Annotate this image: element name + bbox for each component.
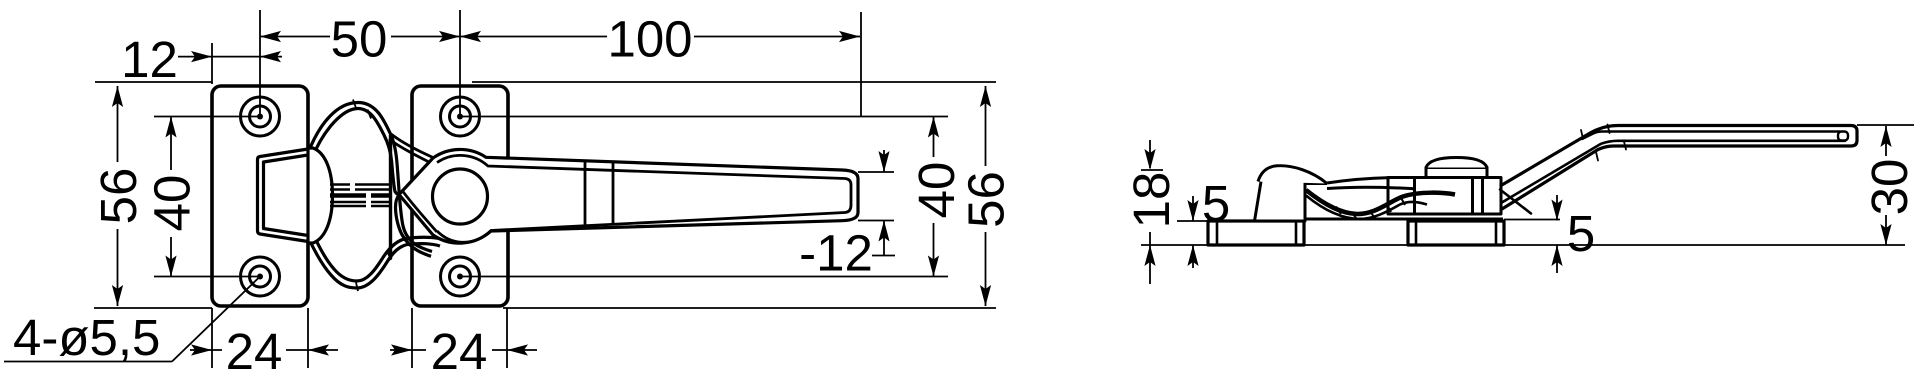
neck lower inner: [395, 195, 431, 257]
spring wire bundle line 3 thick: [330, 193, 366, 198]
arrow dim40R top: [928, 117, 939, 138]
arrow dim24L right: [308, 344, 329, 355]
arrow dim56R top: [980, 86, 991, 107]
keeper trapezoid inner: [264, 155, 309, 236]
lever grip seam line: [1582, 132, 1840, 140]
svg-text:18: 18: [1123, 172, 1180, 229]
extension line x861 vertical: [860, 12, 862, 117]
dim 56 right line: [985, 86, 987, 166]
arrow dim50 left: [260, 31, 281, 42]
svg-text:40: 40: [144, 175, 201, 232]
arrow dim24L left: [191, 344, 212, 355]
dim 5 left connector: [1177, 220, 1208, 222]
bend tick 3: [1596, 152, 1598, 161]
svg-text:56: 56: [958, 171, 1015, 228]
coil rung 2: [1352, 213, 1357, 220]
arrow dim100 left: [460, 31, 481, 42]
coil rung 3: [1370, 211, 1375, 219]
arrow dim5R bottom: [1551, 245, 1562, 266]
keeper cap: [308, 148, 333, 243]
svg-text:4-ø5,5: 4-ø5,5: [13, 309, 160, 366]
pivot block side view: [1388, 178, 1501, 215]
lever inner line: [1501, 141, 1845, 203]
side spring S main: [1306, 190, 1455, 214]
side wire band line 1: [1327, 178, 1390, 183]
svg-text:56: 56: [90, 168, 147, 225]
arch tick 2: [368, 110, 372, 119]
connecting bar side view: [1305, 218, 1503, 221]
arrow dim5L bottom: [1187, 245, 1198, 266]
block inner vertical 3: [1481, 178, 1484, 215]
boss under dome: [1426, 168, 1487, 178]
arrow dim18 top: [1144, 149, 1155, 170]
pivot inner arc bottom: [437, 213, 845, 243]
arrow dim50 right: [439, 31, 460, 42]
dip tick 2: [388, 252, 392, 260]
centerline hole row bottom right: [460, 276, 948, 278]
dim -12 connectors: [858, 171, 894, 173]
svg-text:30: 30: [1861, 159, 1918, 216]
dim -12 line vertical: [883, 150, 885, 172]
hole center dots: [257, 114, 263, 120]
svg-text:40: 40: [908, 162, 965, 219]
arrow dim12 right: [260, 51, 281, 62]
spring wire bundle line 1: [330, 183, 350, 186]
dim 12 line: [178, 56, 260, 58]
base plate right: [1408, 221, 1504, 245]
extension line x212 short: [211, 43, 213, 84]
arrow dim-12 top: [878, 151, 889, 172]
centerline hole row bottom left: [154, 276, 260, 278]
svg-text:100: 100: [607, 11, 692, 68]
dim 40 left line: [170, 117, 172, 171]
bend tick 2: [1608, 125, 1610, 134]
dim 50 line: [260, 36, 330, 38]
arrow dim18 bottom: [1144, 245, 1155, 266]
arch spring wire inner: [312, 109, 399, 195]
extension line top-left horizontal: [95, 81, 212, 83]
pivot inner arc top: [437, 155, 845, 178]
hole bottom-left inner: [250, 266, 271, 287]
block inner vertical 2: [1471, 178, 1474, 215]
centerline hole row top left: [154, 116, 260, 118]
bend tick 1: [1581, 130, 1583, 139]
arrow dim56L bottom: [112, 285, 123, 306]
dim 24 left line: [190, 349, 222, 351]
hole top-left outer: [241, 97, 280, 136]
arrow dim5L top: [1187, 200, 1198, 221]
arch tick 1: [353, 100, 356, 109]
base plate left: [1208, 221, 1304, 245]
arrow dim40R bottom: [928, 256, 939, 277]
keeper side body: [1255, 182, 1328, 222]
arrow dim5R top: [1551, 200, 1562, 221]
dim 5 right connector: [1504, 219, 1560, 221]
extension line bottom-left horizontal: [94, 307, 212, 309]
svg-text:5: 5: [1567, 205, 1595, 262]
dim 30 connector: [1857, 124, 1914, 126]
hole bottom-right outer: [441, 257, 480, 296]
leader 4-o5,5 underline: [4, 361, 172, 363]
arrow dim56R bottom: [980, 285, 991, 306]
coil rung 1: [1336, 207, 1341, 215]
spring wire bundle line 4: [330, 201, 366, 204]
dim 24 right line: [390, 349, 426, 351]
arrow dim12 left: [191, 51, 212, 62]
dim 24 right: extension lines: [411, 308, 413, 368]
hole top-left inner: [250, 106, 271, 127]
lever tip rolled end: [1838, 132, 1848, 141]
left mounting plate: [212, 86, 308, 306]
right mounting plate: [412, 86, 508, 306]
centerline x460 vertical: [459, 10, 461, 117]
arrow dim56L top: [112, 86, 123, 107]
handle tick 1: [584, 161, 587, 226]
handle tick 2: [612, 162, 615, 225]
hole bottom-right inner: [450, 266, 471, 287]
svg-text:-12: -12: [799, 225, 873, 282]
arrow dim30 bottom: [1880, 224, 1891, 245]
dim 5 right line: [1556, 195, 1558, 221]
leader 4-o5,5 diagonal: [172, 277, 260, 362]
lever angled outer top: [1501, 126, 1857, 210]
handle tip inner: [845, 179, 851, 213]
svg-text:24: 24: [226, 323, 283, 380]
centerline x260 vertical: [259, 10, 261, 117]
dim 100 line: [460, 36, 607, 38]
arch spring wire outer: [308, 103, 399, 195]
dip tick 1: [356, 283, 358, 292]
arrow dim-12 bottom: [878, 221, 889, 242]
text dim 56 right rotated: [958, 171, 1015, 228]
pivot notch inner line lower: [403, 191, 437, 232]
coil rung 5: [1400, 196, 1405, 205]
right view ground line: [1141, 244, 1905, 246]
dip spring wire inner: [313, 234, 443, 282]
side wire band line 2: [1327, 187, 1414, 189]
svg-text:24: 24: [431, 323, 488, 380]
arch branch to head upper a: [391, 134, 433, 158]
arrow dim40L top: [165, 117, 176, 138]
arrow dim40L bottom: [165, 256, 176, 277]
svg-text:12: 12: [121, 31, 178, 88]
spring wire bundle line 2: [330, 188, 350, 191]
keeper trapezoid outer: [258, 149, 309, 242]
bend tick 4: [1624, 142, 1626, 150]
svg-text:50: 50: [331, 11, 388, 68]
hole top-right outer: [441, 97, 480, 136]
extension line top-right horizontal: [472, 81, 996, 83]
centerline hole row top right: [460, 116, 948, 118]
hole bottom-left outer: [241, 257, 280, 296]
text dim 18 rotated: [1123, 172, 1180, 229]
holes: [241, 97, 480, 296]
dip spring wire outer: [309, 239, 440, 288]
text dim 30 rotated: [1861, 159, 1918, 216]
extension line bottom-right horizontal: [503, 307, 996, 309]
text dim 40 left rotated: [144, 175, 201, 232]
spring wire bundle line 5: [330, 205, 366, 208]
block inner vertical 1: [1413, 178, 1416, 215]
lever hidden rear edge: [1500, 190, 1531, 214]
vertical bar between plates: [389, 135, 392, 259]
dim 18 connector: [1141, 169, 1163, 171]
text dim 56 left rotated: [90, 168, 147, 225]
hole top-right inner: [450, 106, 471, 127]
dome: [1426, 158, 1487, 168]
dim 40 right line: [933, 117, 935, 158]
dim 24 left: extension lines: [211, 308, 213, 368]
pivot bore circle: [433, 169, 488, 224]
arrow dim24R left: [391, 344, 412, 355]
arrow dim100 right: [839, 31, 860, 42]
neck lower outer: [399, 195, 432, 252]
arch branch to head upper b: [389, 139, 428, 162]
coil rung 4: [1386, 203, 1391, 212]
dim 5 left line: [1192, 196, 1194, 221]
dim 56 left line: [117, 86, 119, 162]
text dim 40 right rotated: [908, 162, 965, 219]
pivot head and handle outer: [399, 149, 858, 243]
keeper side dome: [1258, 166, 1327, 184]
arrow dim30 top: [1880, 126, 1891, 147]
arrow dim24R right: [507, 344, 528, 355]
side spring S lower: [1306, 196, 1427, 220]
dim 30 line: [1885, 126, 1887, 156]
dim 18 line: [1149, 140, 1151, 168]
